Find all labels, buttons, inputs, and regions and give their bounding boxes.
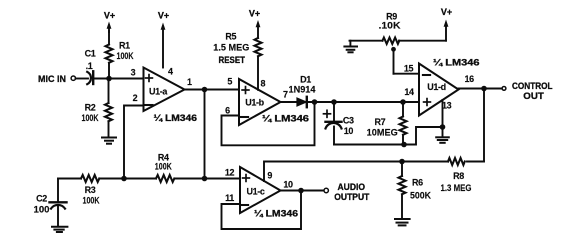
terminal CONTROL OUT — [502, 87, 506, 91]
svg-text:10MEG: 10MEG — [367, 127, 398, 137]
svg-text:V+: V+ — [158, 10, 169, 20]
svg-text:100K: 100K — [117, 51, 134, 61]
wire U1-a output — [185, 89, 240, 91]
capacitor C2 — [50, 179, 67, 227]
resistor R8 — [448, 158, 465, 165]
wire pin11 feedback loop — [222, 191, 302, 230]
op-amp U1-a — [144, 68, 185, 112]
svg-text:C3: C3 — [343, 116, 354, 126]
terminal MIC IN — [71, 76, 75, 80]
wire — [99, 178, 156, 180]
node control out — [481, 86, 487, 92]
wire control feedback drop — [483, 89, 485, 162]
svg-text:500K: 500K — [410, 191, 431, 201]
svg-text:R2: R2 — [85, 103, 96, 113]
svg-text:R5: R5 — [225, 32, 236, 42]
svg-text:4: 4 — [168, 67, 173, 77]
svg-text:¼ LM346: ¼ LM346 — [433, 57, 480, 67]
resistor R6 — [399, 162, 406, 219]
svg-text:CONTROL: CONTROL — [512, 81, 553, 91]
wire C3 R7 bottom rail to ground — [334, 127, 443, 145]
svg-text:.1: .1 — [86, 61, 93, 71]
svg-text:R8: R8 — [453, 171, 464, 181]
svg-text:100K: 100K — [155, 162, 172, 172]
ground under C2 — [52, 227, 67, 232]
svg-text:15: 15 — [404, 63, 414, 73]
svg-text:1.3 MEG: 1.3 MEG — [441, 183, 472, 193]
terminal AUDIO OUTPUT — [324, 188, 328, 192]
node input junction — [106, 76, 112, 82]
capacitor C3 — [326, 102, 342, 145]
resistor R1 — [106, 31, 113, 79]
svg-text:6: 6 — [225, 106, 230, 116]
svg-text:AUDIO: AUDIO — [338, 182, 366, 192]
resistor R3 — [81, 175, 99, 182]
wire pin15 — [394, 73, 420, 75]
wire R9 to V+ — [399, 40, 446, 42]
svg-text:¼ LM346: ¼ LM346 — [262, 113, 309, 123]
resistor R5 — [255, 38, 262, 90]
node R6 junction — [399, 159, 405, 165]
svg-text:1N914: 1N914 — [289, 85, 316, 95]
potentiometer R9 — [383, 38, 400, 74]
resistor R7 — [400, 102, 407, 145]
node pin12 junction — [202, 176, 208, 182]
svg-text:100: 100 — [34, 205, 50, 215]
svg-text:12: 12 — [225, 168, 235, 178]
svg-text:D1: D1 — [300, 74, 311, 84]
ground under R2 — [102, 138, 116, 144]
label + C3 — [324, 110, 331, 117]
svg-text:OUT: OUT — [523, 91, 544, 101]
svg-text:U1-a: U1-a — [149, 87, 168, 97]
svg-text:9: 9 — [267, 170, 272, 180]
svg-text:U1-b: U1-b — [245, 98, 264, 108]
svg-text:U1-c: U1-c — [246, 187, 264, 197]
svg-text:OUTPUT: OUTPUT — [334, 192, 369, 202]
svg-text:V+: V+ — [441, 7, 452, 17]
svg-text:13: 13 — [442, 101, 452, 111]
ground under R6 — [395, 219, 410, 225]
svg-text:C1: C1 — [85, 49, 96, 59]
wire — [175, 178, 240, 180]
node U1-a output — [202, 87, 208, 93]
diode D1 — [297, 97, 307, 107]
svg-text:MIC IN: MIC IN — [38, 74, 66, 84]
ground pin13 — [436, 137, 449, 143]
wire U1-d output — [459, 88, 502, 90]
svg-text:R7: R7 — [375, 117, 386, 127]
op-amp U1-b — [239, 79, 281, 125]
resistor R2 — [105, 79, 112, 138]
svg-text:V+: V+ — [249, 8, 260, 18]
svg-text:.10K: .10K — [379, 21, 402, 31]
op-amp U1-d — [419, 64, 459, 116]
wire pin13 — [442, 100, 444, 136]
svg-text:7: 7 — [283, 90, 288, 100]
svg-text:100K: 100K — [82, 113, 99, 123]
svg-text:U1-d: U1-d — [427, 82, 446, 92]
svg-text:10: 10 — [344, 126, 354, 136]
node U1-c output — [298, 188, 304, 194]
svg-text:2: 2 — [133, 93, 138, 103]
ground R9 left — [344, 47, 357, 53]
wire pin9 — [264, 162, 448, 182]
svg-text:¼ LM346: ¼ LM346 — [254, 209, 298, 219]
svg-text:RESET: RESET — [219, 55, 246, 65]
wire — [94, 78, 144, 80]
svg-text:C2: C2 — [36, 194, 47, 204]
resistor R4 — [156, 175, 174, 182]
svg-text:3: 3 — [131, 67, 136, 77]
wire pin2 feedback — [124, 106, 144, 179]
node C3 top — [331, 99, 337, 105]
svg-text:R3: R3 — [85, 185, 96, 195]
wire — [76, 78, 88, 80]
wire U1-c output — [281, 190, 324, 192]
wire detector node row — [308, 101, 419, 103]
svg-text:11: 11 — [225, 193, 234, 203]
svg-text:V+: V+ — [104, 10, 115, 20]
svg-text:R6: R6 — [412, 178, 423, 188]
svg-text:100K: 100K — [83, 195, 100, 205]
svg-text:14: 14 — [404, 87, 414, 97]
op-amp U1-c — [240, 167, 281, 213]
svg-text:¼ LM346: ¼ LM346 — [154, 113, 198, 123]
power V+ top right — [441, 7, 452, 41]
svg-text:R1: R1 — [119, 41, 130, 51]
node after diode — [312, 99, 318, 105]
svg-text:1: 1 — [187, 77, 192, 87]
node feedback junction — [121, 176, 127, 182]
capacitor C1 — [87, 72, 91, 84]
node rail — [401, 142, 407, 148]
power V+ above R5 — [249, 8, 261, 38]
svg-text:10: 10 — [283, 180, 293, 190]
power V+ above R1 — [104, 10, 115, 32]
wire ground to R9 — [349, 41, 351, 46]
node pin13 ground — [440, 124, 446, 130]
wire pin6 feedback — [222, 102, 315, 145]
power V+ pin 4 — [158, 10, 169, 67]
svg-text:16: 16 — [465, 74, 475, 84]
wire bottom input row — [58, 178, 81, 180]
wire bottom control row — [467, 161, 484, 163]
svg-text:1.5 MEG: 1.5 MEG — [213, 43, 249, 53]
wire output to pin12 — [204, 90, 206, 179]
svg-text:5: 5 — [227, 77, 232, 87]
svg-text:8: 8 — [261, 79, 266, 89]
wire U1-b output — [281, 101, 298, 103]
node R7 top — [400, 99, 406, 105]
